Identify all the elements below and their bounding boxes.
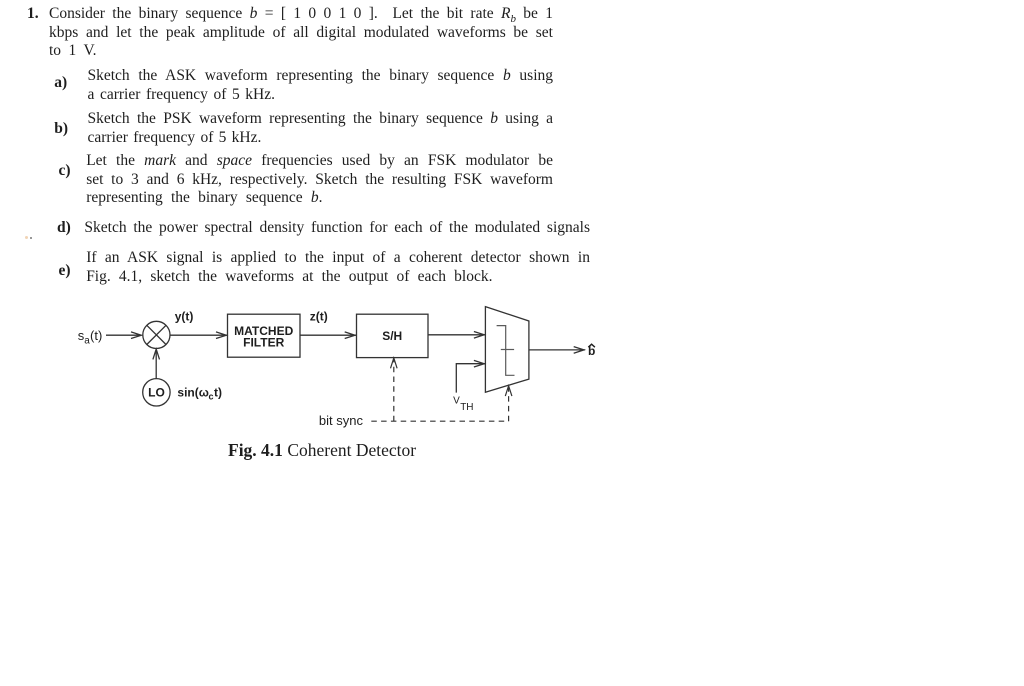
- svg-text:sin(ω: sin(ω: [177, 386, 208, 400]
- svg-text:S/H: S/H: [382, 329, 402, 343]
- svg-text:b: b: [588, 344, 595, 358]
- svg-text:t): t): [214, 386, 222, 400]
- svg-text:z(t): z(t): [310, 310, 328, 324]
- svg-text:(t): (t): [90, 328, 102, 343]
- svg-text:TH: TH: [460, 402, 473, 413]
- svg-text:V: V: [453, 395, 460, 406]
- svg-text:LO: LO: [148, 386, 165, 400]
- svg-text:c: c: [209, 392, 214, 402]
- svg-text:bit sync: bit sync: [319, 413, 364, 428]
- svg-text:y(t): y(t): [175, 310, 194, 324]
- svg-text:FILTER: FILTER: [243, 335, 284, 349]
